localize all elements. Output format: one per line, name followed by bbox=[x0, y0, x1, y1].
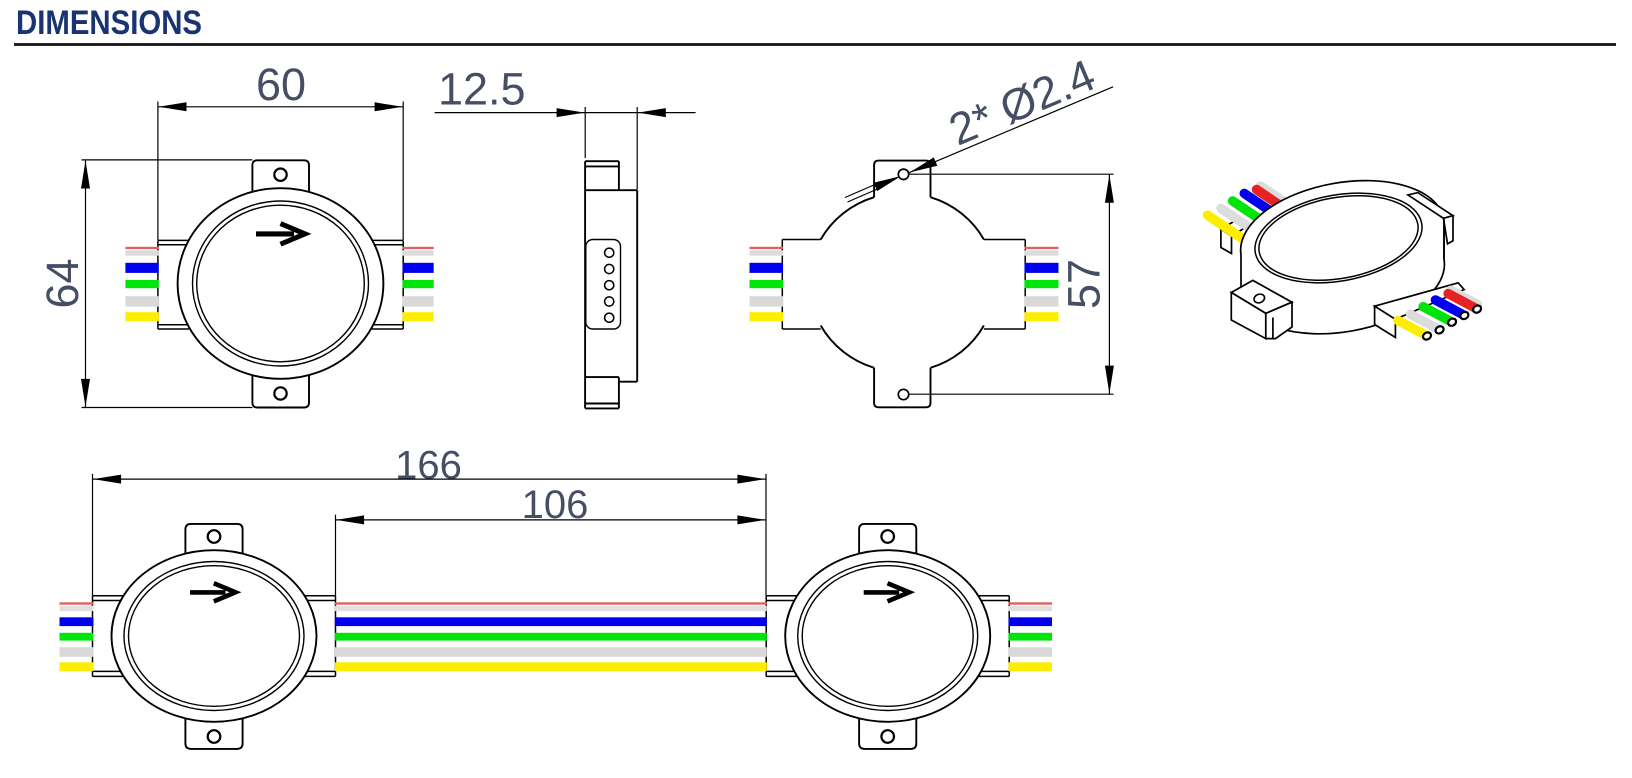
svg-text:166: 166 bbox=[395, 444, 462, 488]
back view bbox=[750, 49, 1114, 407]
right wires bbox=[1025, 247, 1059, 321]
side view bbox=[435, 64, 696, 409]
top tab hole bbox=[208, 530, 221, 543]
inner ring 2 bbox=[197, 205, 365, 362]
bottom tab bbox=[252, 376, 309, 408]
module B1 bbox=[93, 524, 336, 749]
bottom tab hole bbox=[274, 387, 286, 399]
iso view bbox=[1208, 166, 1483, 341]
iso connector box lower-right bbox=[1375, 283, 1465, 320]
iso wires upper-left bbox=[1208, 186, 1297, 239]
dim 106 arrows bbox=[336, 515, 765, 524]
bottom tab bbox=[874, 368, 930, 408]
dim 12.5 lines bbox=[435, 107, 696, 190]
top tab bbox=[252, 160, 309, 192]
dim 166 arrows bbox=[93, 475, 765, 484]
bottom tab bbox=[185, 715, 242, 749]
front view module bbox=[37, 59, 434, 408]
body outline bbox=[584, 161, 586, 408]
svg-text:12.5: 12.5 bbox=[438, 64, 526, 115]
bottom tab hole bbox=[898, 389, 908, 399]
left connector bbox=[93, 596, 124, 677]
iso tab box lower-left bbox=[1231, 280, 1292, 313]
header bbox=[14, 4, 1616, 45]
bottom tab hole bbox=[208, 730, 221, 743]
iso wall edge over tab bbox=[1443, 219, 1445, 259]
top tab bbox=[185, 524, 242, 557]
dim 64 arrows bbox=[81, 161, 90, 407]
dim 60 line bbox=[158, 102, 403, 241]
inner ring 1 bbox=[193, 201, 369, 366]
dim 60 arrows bbox=[159, 102, 403, 111]
connector pins bbox=[605, 248, 614, 322]
direction arrow bbox=[190, 590, 226, 595]
svg-text:64: 64 bbox=[37, 258, 88, 308]
left connector bbox=[782, 240, 820, 330]
inner ring 2 bbox=[129, 566, 300, 707]
left wires bbox=[750, 247, 784, 321]
iso connector box upper-left bbox=[1221, 218, 1251, 236]
connector plate bbox=[586, 240, 621, 330]
wires far right bbox=[1009, 602, 1053, 671]
iso disc outer bbox=[1232, 166, 1454, 309]
dim 57 lines bbox=[910, 174, 1114, 394]
wires middle bbox=[335, 602, 767, 671]
left connector bbox=[158, 240, 189, 329]
outer ring bbox=[112, 550, 317, 722]
iso wire end rings bbox=[1422, 304, 1483, 341]
iso rim ring 1 bbox=[1248, 181, 1429, 295]
iso tab hole bbox=[1253, 293, 1266, 305]
wires far left bbox=[60, 602, 94, 671]
bottom figure bbox=[60, 444, 1053, 749]
dim 166 lines bbox=[93, 474, 767, 596]
dim 12.5 arrows bbox=[557, 108, 666, 117]
top tab hole bbox=[898, 169, 908, 179]
dim 57 arrows bbox=[1105, 175, 1114, 394]
left wires bbox=[125, 247, 158, 321]
leader 2*D2.4 bbox=[845, 87, 1113, 202]
right connector bbox=[305, 596, 336, 677]
direction arrow bbox=[256, 231, 294, 236]
top tab hole bbox=[274, 169, 286, 181]
top tab bbox=[874, 161, 930, 198]
svg-text:DIMENSIONS: DIMENSIONS bbox=[16, 4, 202, 42]
module B2 bbox=[766, 524, 1009, 749]
inner ring 1 bbox=[124, 562, 304, 711]
svg-text:60: 60 bbox=[256, 59, 306, 110]
iso disc wall bbox=[1241, 219, 1444, 334]
right wires bbox=[403, 247, 434, 321]
iso rim ring 2 bbox=[1252, 184, 1425, 292]
dim 64 line bbox=[82, 160, 253, 408]
body arcs bbox=[821, 197, 984, 368]
dim 106 lines bbox=[336, 515, 767, 596]
svg-text:57: 57 bbox=[1059, 259, 1110, 309]
right connector bbox=[984, 240, 1025, 330]
iso tab box upper-right bbox=[1408, 193, 1453, 219]
outer ring bbox=[178, 188, 384, 379]
iso wires lower-right bbox=[1398, 290, 1478, 334]
right connector bbox=[372, 240, 403, 329]
